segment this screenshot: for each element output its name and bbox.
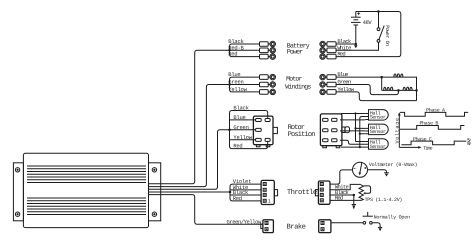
wire Green phase jog — [336, 85, 399, 95]
battery plus sign — [357, 12, 360, 15]
junction switch top rail — [377, 10, 380, 13]
svg-text:Phase C: Phase C — [413, 136, 432, 142]
svg-text:0v: 0v — [467, 141, 471, 147]
J5 latch tab — [274, 190, 277, 196]
battery B1 48V — [351, 12, 361, 46]
TPS wiper loop — [364, 186, 371, 193]
throttle group bundle bracket — [230, 184, 261, 201]
junction node C yellow — [415, 89, 418, 92]
switch S1 power on — [377, 12, 384, 43]
winding L2 bottom-left coil — [384, 87, 393, 90]
rotor wire Red under-route — [265, 142, 268, 149]
hall wire 1 power — [341, 113, 365, 115]
J3 pin Yellow — [256, 138, 262, 141]
wire Black to ground — [330, 194, 354, 196]
hall wire 3 signal B — [340, 130, 365, 132]
hall wire 2 signal A — [340, 119, 365, 121]
J3 feet — [256, 145, 269, 147]
brake connector J7 housing — [263, 220, 274, 233]
female bullet connector motor Blue — [320, 74, 336, 80]
hall wire 4 signal C — [340, 140, 365, 144]
hall wire 5 ground — [341, 146, 365, 148]
junction node B green — [397, 89, 400, 92]
junction node A blue — [380, 76, 383, 79]
motor winding bottom line — [382, 89, 417, 91]
junction black ground — [353, 194, 356, 197]
battery negative arrow — [354, 45, 358, 48]
hall sensor U2 — [365, 110, 388, 121]
motor group bundle bracket — [230, 77, 260, 92]
wire trunk motor — [149, 85, 230, 187]
throttle connector J5 housing — [261, 180, 274, 204]
svg-text:Green: Green — [233, 124, 249, 131]
phase A waveform — [400, 112, 468, 116]
junction hall bus dots — [354, 112, 361, 148]
J4 latch tab — [342, 127, 350, 133]
wire trunk throttle — [149, 191, 231, 193]
svg-text:Phase B: Phase B — [420, 120, 439, 126]
wire Black to battery negative — [336, 43, 356, 45]
svg-text:48V: 48V — [363, 19, 373, 26]
wire trunk battery — [149, 50, 230, 184]
female bullet connector motor Green — [320, 82, 336, 88]
svg-text:Voltage: Voltage — [394, 118, 400, 144]
wire Red to +48V rail — [336, 12, 401, 57]
male bullet connector motor Yellow — [260, 89, 276, 95]
male bullet connector battery Red — [260, 54, 276, 60]
wire Red to TPS bottom — [330, 199, 361, 202]
wire trunk rotor position — [149, 130, 230, 190]
hall sensor U3 — [365, 124, 388, 135]
J4 feet — [323, 146, 340, 148]
controller right mounting flange — [149, 163, 161, 221]
svg-text:Red: Red — [233, 195, 242, 202]
female bullet connector battery White — [320, 48, 336, 54]
rotor wires to connector — [230, 120, 256, 140]
TPS wiper arrow — [363, 192, 365, 194]
voltmeter ground — [368, 170, 387, 173]
svg-text:Normally Open: Normally Open — [374, 215, 410, 221]
male bullet connector battery Red-B — [260, 48, 276, 54]
junction black wire battery — [355, 43, 358, 46]
controller heatsink fins upper — [27, 166, 146, 183]
female bullet connector motor Yellow — [320, 89, 336, 95]
phase C waveform — [401, 141, 466, 145]
junction throttle trunk — [229, 191, 232, 194]
svg-text:Position: Position — [288, 130, 316, 139]
battery group bundle bracket — [230, 44, 260, 57]
screw hole bottom-right — [152, 212, 156, 216]
wire trunk brake — [149, 195, 263, 225]
female bullet connector battery Black — [320, 41, 336, 47]
throttle wires middle — [230, 190, 261, 195]
junction rotor trunk — [228, 129, 231, 132]
junction battery trunk — [228, 49, 231, 52]
motor winding delta left leg — [381, 77, 383, 90]
svg-text:Sensor: Sensor — [370, 129, 386, 135]
brake connector J8 housing — [319, 220, 331, 233]
J3 pin Green — [256, 128, 262, 131]
TPS ground arrow — [352, 205, 355, 209]
J5 pins — [263, 183, 266, 203]
svg-text:Yellow: Yellow — [228, 86, 247, 93]
svg-text:Throttle: Throttle — [287, 188, 317, 197]
svg-text:Motor: Motor — [286, 75, 302, 82]
brake switch ground — [372, 223, 380, 228]
svg-text:Red: Red — [228, 51, 237, 58]
svg-text:Time: Time — [423, 145, 432, 151]
controller left mounting flange — [13, 163, 23, 221]
brake connector J7 left nub — [261, 224, 263, 229]
screw hole top-left — [15, 168, 19, 172]
controller U1 body — [23, 153, 148, 227]
svg-text:Green: Green — [228, 79, 244, 86]
J3 pin Blue — [256, 119, 262, 122]
voltmeter M1 — [353, 162, 368, 177]
junction motor trunk — [228, 83, 231, 86]
svg-text:Sensor: Sensor — [370, 115, 386, 121]
wire Blue phase — [336, 77, 417, 101]
J4 pins row3 — [323, 139, 337, 142]
male bullet connector battery Black — [260, 41, 276, 47]
male bullet connector motor Blue — [260, 74, 276, 80]
controller heatsink fins lower — [27, 198, 146, 215]
svg-text:Blue: Blue — [228, 71, 240, 78]
svg-text:Sensor: Sensor — [370, 144, 386, 150]
svg-text:1: 1 — [268, 199, 271, 205]
wire Yellow phase jog — [336, 92, 417, 101]
svg-text:Phase A: Phase A — [426, 107, 445, 113]
svg-text:Black: Black — [233, 105, 249, 112]
svg-text:Power: Power — [287, 49, 303, 56]
screw hole bottom-left — [15, 212, 19, 216]
J4 pins row1 — [323, 118, 337, 121]
rotor connector J4 housing — [320, 114, 342, 146]
J6 pins — [320, 183, 323, 202]
J6 latch tab — [315, 190, 318, 196]
hall ground bus — [360, 117, 366, 148]
rotor connector J3 housing — [253, 116, 273, 145]
rotor wire Black over-route — [265, 111, 268, 118]
TPS resistor R1 zigzag — [359, 184, 363, 200]
svg-text:Green/Yellow: Green/Yellow — [227, 218, 262, 225]
female bullet connector battery Red — [320, 54, 336, 60]
waveform time axis — [399, 146, 418, 148]
J3 pin Black top-right — [265, 119, 270, 122]
J3 latch tab — [273, 127, 277, 133]
hall sensor U4 — [365, 139, 388, 150]
wire White to TPS top — [330, 184, 360, 189]
switch S2 normally open — [363, 212, 373, 224]
J7 pins — [265, 222, 268, 231]
J3 pin Red bottom-right — [265, 138, 270, 141]
svg-text:Yellow: Yellow — [233, 134, 252, 141]
motor group middle wire — [230, 84, 260, 86]
male bullet connector motor Green — [260, 82, 276, 88]
svg-text:Brake: Brake — [287, 222, 307, 231]
svg-text:Red: Red — [233, 143, 242, 150]
TPS ground stem — [353, 195, 355, 205]
waveform voltage axis — [398, 114, 400, 148]
throttle connector J6 housing — [318, 181, 330, 204]
winding L3 bottom-right coil — [403, 87, 412, 90]
J4 pins row2 — [323, 129, 337, 132]
svg-text:Windings: Windings — [285, 84, 311, 91]
wire brake to switch — [331, 222, 363, 224]
svg-text:Blue: Blue — [233, 114, 245, 121]
hall power bus — [356, 114, 366, 142]
wire Violet to voltmeter — [330, 170, 353, 184]
svg-text:Voltmeter (0-Vmax): Voltmeter (0-Vmax) — [369, 162, 418, 168]
battery group middle wire — [230, 49, 260, 51]
svg-text:TPS (1.1-4.2V): TPS (1.1-4.2V) — [365, 197, 403, 203]
screw hole top-right — [152, 168, 156, 172]
TPS ground bar — [352, 204, 356, 206]
phase B waveform — [400, 126, 464, 130]
rotor group bundle bracket — [230, 111, 266, 149]
svg-text:Power On: Power On — [384, 25, 390, 46]
J8 pins — [321, 222, 324, 231]
wire White to switch — [336, 42, 379, 50]
winding L1 top coil — [394, 74, 403, 77]
